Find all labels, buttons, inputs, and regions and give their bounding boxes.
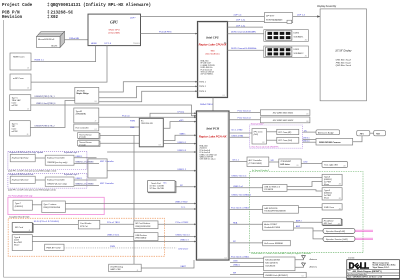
audio codec xyxy=(263,222,294,230)
WLAN module xyxy=(264,257,295,271)
svg-text:USB3.2 Gen1(TBD) 2: USB3.2 Gen1(TBD) 2 xyxy=(232,195,252,197)
svg-text:Type C retimer: Type C retimer xyxy=(43,203,56,206)
wire TypeA to USB redriver xyxy=(32,236,134,238)
svg-text:USB Redriver: USB Redriver xyxy=(135,235,147,237)
svg-text:U8: U8 xyxy=(159,144,161,146)
wire TypeC1 to Maple Ridge xyxy=(31,97,75,99)
svg-text:LED: LED xyxy=(304,162,308,164)
svg-text:Share: Share xyxy=(324,197,329,199)
header project code text xyxy=(2,3,151,20)
svg-text:USB3.2 Gen1: USB3.2 Gen1 xyxy=(107,234,120,236)
svg-text:M.2 2280 SSD SSD1: M.2 2280 SSD SSD1 xyxy=(273,113,294,115)
svg-text:18" Slim : 18x7 MB: 18" Slim : 18x7 MB xyxy=(150,188,165,190)
svg-text:QHD Slim Touch: QHD Slim Touch xyxy=(336,65,352,67)
svg-text:USB3/DP(TBT4) TB_1: USB3/DP(TBT4) TB_1 xyxy=(35,96,56,98)
svg-text:Fan Controller: Fan Controller xyxy=(76,126,89,129)
svg-text:Display Assembly: Display Assembly xyxy=(317,5,337,8)
wire keyboard1 to controller1 xyxy=(35,157,45,159)
svg-text:eDP 1.4: eDP 1.4 xyxy=(234,15,243,17)
wire hub to TypeA2 xyxy=(287,190,322,191)
wire CPU second eDP stub xyxy=(228,26,264,28)
svg-text:UHD Slim Touch: UHD Slim Touch xyxy=(336,60,352,62)
wire CPU eDP1.4a to DP mux xyxy=(228,21,265,23)
wire DDR channel B xyxy=(228,49,264,51)
connector Type C TBT J6 xyxy=(10,121,31,136)
wire PCH to WLAN CNVi xyxy=(230,262,264,264)
svg-text:Share: Share xyxy=(324,184,329,186)
keyboard junction box xyxy=(88,159,107,178)
svg-text:I2C: I2C xyxy=(233,241,237,243)
wire retimer to PCH USB3 xyxy=(65,203,196,205)
SD redriver xyxy=(134,221,158,229)
wire codec to headphone xyxy=(294,221,323,223)
svg-text:TBT4 3: TBT4 3 xyxy=(199,91,206,93)
keyboard controller 2 xyxy=(45,177,74,186)
svg-text:J16: J16 xyxy=(306,121,309,123)
svg-text:Project Code: Project Code xyxy=(2,3,33,8)
svg-text:For Perkey Bright LED3 only: For Perkey Bright LED3 only xyxy=(8,195,32,198)
titleblock company text xyxy=(373,261,396,268)
svg-text:(USB3.2): (USB3.2) xyxy=(15,206,24,208)
svg-text:DMIx8 TBD4: DMIx8 TBD4 xyxy=(200,104,213,106)
svg-text:SPI: SPI xyxy=(233,273,237,275)
connector HDMI Conn J1 xyxy=(10,53,31,70)
svg-text:DP WTT: DP WTT xyxy=(266,15,275,17)
antenna main xyxy=(302,255,306,259)
wire hub to TypeA1 xyxy=(287,182,322,187)
svg-text:w/PD3: w/PD3 xyxy=(12,105,19,107)
svg-text:J3: J3 xyxy=(27,68,29,70)
wire CPU DMI to PCH xyxy=(212,98,214,112)
wire PCH to TypeA2 xyxy=(229,196,322,198)
svg-text:(2 Lead): (2 Lead) xyxy=(79,144,86,146)
svg-text:USB2.0: USB2.0 xyxy=(233,265,241,267)
wire controller1 SMB out xyxy=(74,162,99,164)
thermal sensor 1 xyxy=(78,133,100,139)
svg-text:(PS8733B/3): (PS8733B/3) xyxy=(135,238,146,240)
svg-text:LAN 10/100/1G: LAN 10/100/1G xyxy=(264,207,278,210)
keyboard 4zone module purple region xyxy=(8,173,87,188)
svg-text:I2C 1.1/TBD: I2C 1.1/TBD xyxy=(232,130,244,132)
svg-text:TypeM: TypeM xyxy=(76,111,82,113)
wire SD redriver to PCH xyxy=(158,223,196,225)
svg-text:Touch Pad: Touch Pad xyxy=(151,183,161,185)
svg-text:Alienware Badge: Alienware Badge xyxy=(317,131,335,134)
svg-text:SPI: SPI xyxy=(271,160,275,162)
wire FPC1 to FPC2 xyxy=(267,131,277,133)
wire fan controller to EC xyxy=(99,126,140,128)
svg-text:Audio CODEC: Audio CODEC xyxy=(263,223,277,226)
svg-text:PCIe Gen4 x4: PCIe Gen4 x4 xyxy=(238,118,252,120)
svg-text:4x Sound Combo 2: 4x Sound Combo 2 xyxy=(252,170,270,172)
svg-text:U6: U6 xyxy=(95,101,97,103)
svg-text:Realtek ALC3254: Realtek ALC3254 xyxy=(264,226,280,229)
svg-text:USB3.2 Gen1 4: USB3.2 Gen1 4 xyxy=(176,234,191,236)
svg-text:x18: x18 xyxy=(343,166,346,168)
svg-text:eDP?: eDP? xyxy=(130,18,136,20)
connector Type C USB3.2 xyxy=(13,200,32,210)
titleblock divider 2 xyxy=(347,272,400,274)
svg-text:TBT4 1: TBT4 1 xyxy=(199,81,206,83)
svg-text:eDP 1.4a: eDP 1.4a xyxy=(236,25,246,27)
TypeC retimer xyxy=(42,201,66,213)
wire touchpad to PCH I2C xyxy=(175,186,196,188)
svg-text:2280(M2B): 2280(M2B) xyxy=(75,114,87,116)
svg-text:USB2.1: USB2.1 xyxy=(75,178,83,180)
svg-text:TBD: TBD xyxy=(210,51,215,53)
connector Type C TBT4 LAP J5 xyxy=(10,95,31,111)
orange daughter board region xyxy=(8,218,164,256)
svg-text:LL: LL xyxy=(360,262,369,271)
wire arrowheads at PCH left pins xyxy=(194,33,197,243)
svg-text:J8: J8 xyxy=(29,230,31,232)
hall sensor xyxy=(263,240,291,246)
svg-text:ITE8297 (4 zone only): ITE8297 (4 zone only) xyxy=(47,182,67,185)
svg-text:Keyboard Logic 2: Keyboard Logic 2 xyxy=(64,173,79,176)
FPC Conn 4P xyxy=(277,129,299,134)
svg-text:JHL8540: JHL8540 xyxy=(77,90,86,92)
wire thermal sensors to EC xyxy=(100,134,139,136)
svg-text:RTL8111EPV/8125BGVB: RTL8111EPV/8125BGVB xyxy=(264,211,286,213)
svg-text:Taipei Taiwan, R.O.C.: Taipei Taiwan, R.O.C. xyxy=(373,267,390,269)
wire USB redriver to PCH xyxy=(158,236,196,238)
wire DDR channel A xyxy=(228,33,264,35)
svg-text:ITE5570E-128: ITE5570E-128 xyxy=(141,123,153,125)
svg-text:J21: J21 xyxy=(339,198,342,200)
svg-text:Hall sensor SM363A: Hall sensor SM363A xyxy=(264,242,283,245)
wire EC to PCH USB xyxy=(163,143,196,145)
connector headphone jack xyxy=(322,219,342,226)
svg-text:I2C: I2C xyxy=(164,183,168,185)
wire TypeC2 to Maple Ridge xyxy=(30,101,75,128)
svg-text:Killer(Intel)/DW2: Killer(Intel)/DW2 xyxy=(265,259,280,262)
svg-text:ROW/TB(2A(2B)4X: ROW/TB(2A(2B)4X xyxy=(266,18,283,21)
svg-text:eDP 1.4a: eDP 1.4a xyxy=(236,20,246,22)
svg-text:SMB 1: SMB 1 xyxy=(180,134,187,136)
svg-text:QBQY00014131 (Infinity RPL-HX: QBQY00014131 (Infinity RPL-HX Alienware) xyxy=(51,3,152,8)
LAN controller xyxy=(263,206,299,214)
wire retimer to PCH CC xyxy=(65,208,196,210)
PCH U2 Intel Raptor Lake PCH-HX xyxy=(196,111,229,260)
svg-text:I2C: I2C xyxy=(180,185,184,187)
connector Type A daughter xyxy=(12,235,32,251)
wire to alienware badge xyxy=(303,131,317,133)
connector Type A 1 xyxy=(322,174,342,185)
wire camera to FAN1 xyxy=(353,136,362,142)
svg-text:Maple Ridge: Maple Ridge xyxy=(77,93,90,95)
svg-text:192bit MB: 192bit MB xyxy=(69,37,79,40)
wire HDMI conn to GPU HDMI pin xyxy=(31,46,96,62)
wire PCH to SSD2 xyxy=(229,119,260,121)
svg-text:256MB Flash (BIOS/EC): 256MB Flash (BIOS/EC) xyxy=(264,275,288,277)
wire PCH to LAN xyxy=(229,209,263,211)
svg-text:TB-BG: TB-BG xyxy=(133,43,140,45)
svg-text:RGB IR/USB Camera: RGB IR/USB Camera xyxy=(319,142,341,144)
wire SD card to card reader xyxy=(32,224,78,226)
wire ALC to LED driver xyxy=(269,161,279,163)
svg-text:mDP Conn: mDP Conn xyxy=(13,78,24,80)
svg-text:USB3.2 x4: USB3.2 x4 xyxy=(233,186,243,188)
svg-text:J9: J9 xyxy=(137,270,139,272)
wire TypeM to PCH PCIe x4 xyxy=(99,116,197,118)
svg-text:PCIex8 PEG: PCIex8 PEG xyxy=(159,32,172,34)
svg-text:CNVi: CNVi xyxy=(233,261,238,263)
svg-text:Killer AX1675i: Killer AX1675i xyxy=(265,262,278,265)
svg-text:DP 1.4: DP 1.4 xyxy=(105,43,112,45)
svg-text:GN21 GPU: GN21 GPU xyxy=(108,30,119,32)
wire Maple TBT1 to CPU xyxy=(99,82,198,92)
svg-text:J4: J4 xyxy=(27,88,29,90)
svg-text:HDMI Conn: HDMI Conn xyxy=(13,57,25,59)
wire PCH to TypeA1 xyxy=(229,177,322,179)
keyboard 4zone xyxy=(10,176,35,183)
svg-text:J7: J7 xyxy=(95,120,97,122)
svg-text:PWM: PWM xyxy=(130,120,135,122)
svg-text:LED driver: LED driver xyxy=(178,248,188,251)
svg-text:PCIe Gen4 x4: PCIe Gen4 x4 xyxy=(238,110,252,112)
svg-text:I/O-E/M Debug: I/O-E/M Debug xyxy=(110,266,124,268)
svg-text:(cable:FPC 1.0t 24P 0.5mm pitc: (cable:FPC 1.0t 24P 0.5mm pitch 4-zone R… xyxy=(8,188,56,191)
svg-text:eDP 1.4: eDP 1.4 xyxy=(297,15,306,17)
svg-text:SD 3.0 (PCIe x1 R-TL/UHS-II): SD 3.0 (PCIe x1 R-TL/UHS-II) xyxy=(34,221,60,223)
magenta speaker wires 2 xyxy=(355,237,373,239)
svg-text:TPS/WS/MP: TPS/WS/MP xyxy=(280,161,291,163)
svg-text:I2C: I2C xyxy=(304,130,308,132)
svg-text:J6: J6 xyxy=(27,134,29,136)
svg-text:J22: J22 xyxy=(339,208,342,210)
svg-text:16"/18" Display: 16"/18" Display xyxy=(335,49,352,52)
wire GPU PEG to CPU xyxy=(141,33,198,35)
svg-text:GPU: GPU xyxy=(110,21,118,25)
wire LAN to RJ45 xyxy=(298,207,322,209)
wire thermal sensor2 to EC xyxy=(100,142,139,144)
wire FPC1 to FPC3 xyxy=(267,139,277,141)
svg-text:USB2.1 2: USB2.1 2 xyxy=(178,169,187,171)
Fan Controller U7 xyxy=(74,124,99,131)
FPC Conn 2x8 b xyxy=(277,137,299,143)
connector RJ45 xyxy=(322,204,342,210)
svg-text:LED driver: LED driver xyxy=(280,164,290,166)
svg-text:UART: UART xyxy=(181,265,187,268)
FAN 1 xyxy=(357,131,370,136)
wire PCH to WLAN USB xyxy=(230,266,264,268)
svg-text:×: × xyxy=(224,41,226,45)
svg-text:eDP1.4 HDMI2.1: eDP1.4 HDMI2.1 xyxy=(201,74,214,76)
svg-text:Keyboard Logic 1: Keyboard Logic 1 xyxy=(64,151,79,154)
svg-text:ALC Controller: ALC Controller xyxy=(248,159,262,162)
SSD Type M 2280 J7 xyxy=(74,108,99,123)
svg-text:Antenna: Antenna xyxy=(309,258,318,261)
keyboard perkey xyxy=(10,154,35,162)
svg-text:PWM: PWM xyxy=(110,246,115,248)
svg-text:Speaker Boost(L&R): Speaker Boost(L&R) xyxy=(326,230,345,233)
svg-text:Date: SATURDAY, APR 01, 23: Date: SATURDAY, APR 01, 23 Sheet 1 of 38 xyxy=(348,276,382,279)
wire PCH USB3 TB4 stub xyxy=(229,136,250,138)
svg-text:Daughter Board IO(2): Daughter Board IO(2) xyxy=(9,216,29,219)
svg-text:SODIMM 2: SODIMM 2 xyxy=(294,53,305,55)
card reader xyxy=(78,220,100,229)
USB hub RTL xyxy=(263,185,287,192)
magenta speaker wires 1 xyxy=(355,229,373,231)
svg-text:USB2.0 1: USB2.0 1 xyxy=(178,142,187,144)
SSD M.2 2280 SSD2 xyxy=(260,117,310,123)
svg-text:HDMI 2.1: HDMI 2.1 xyxy=(35,60,45,62)
titleblock box xyxy=(347,260,400,280)
svg-text:Raptor Lake PCH-HX: Raptor Lake PCH-HX xyxy=(199,135,227,139)
svg-text:Speaker Tweeter (L&R): Speaker Tweeter (L&R) xyxy=(326,238,348,241)
wires to camera xyxy=(303,139,317,141)
svg-text:MIC Jack: MIC Jack xyxy=(324,223,333,225)
svg-text:USB 2.0: USB 2.0 xyxy=(303,141,310,143)
antenna aux xyxy=(302,263,306,267)
svg-text:(2 Lead): (2 Lead) xyxy=(79,137,86,139)
keyboard controller 1 ITE8298 xyxy=(45,155,74,165)
svg-text:USB2.0 Gen2(TBD) 6: USB2.0 Gen2(TBD) 6 xyxy=(36,103,56,105)
svg-text:Intel PCH: Intel PCH xyxy=(205,127,219,131)
svg-text:USB2.1: USB2.1 xyxy=(75,156,83,158)
svg-text:w/PD3: w/PD3 xyxy=(12,131,19,133)
connector mDP Conn J4 xyxy=(10,74,31,90)
DP mux U5 xyxy=(264,13,292,23)
svg-text:CNVi GbE I2C x4(-/-): CNVi GbE I2C x4(-/-) xyxy=(200,159,216,161)
wire debug conn to PCH xyxy=(141,260,194,268)
debug connector M.2 xyxy=(109,264,142,272)
thermal sensor 2 xyxy=(78,140,100,146)
dashed wire PWM to LED driver ref xyxy=(64,247,176,249)
svg-text:SMB: SMB xyxy=(130,127,135,129)
wire Maple TBT3 to CPU xyxy=(99,91,198,102)
svg-text:PCIe x1 TBD1: PCIe x1 TBD1 xyxy=(107,222,121,224)
USB redriver xyxy=(134,233,158,241)
svg-text:DDR5 Channel B 4800MHz: DDR5 Channel B 4800MHz xyxy=(231,48,256,50)
svg-text:Keyboard RGB Board 4Zone: Keyboard RGB Board 4Zone xyxy=(9,173,33,176)
svg-text:PCIe x4: PCIe x4 xyxy=(122,115,130,117)
svg-text:J11: J11 xyxy=(305,56,308,58)
wire upper USB2 to PCH xyxy=(107,151,196,153)
svg-text:U4: U4 xyxy=(302,276,304,278)
thermal solution purple region xyxy=(250,125,303,148)
svg-text:HDMI: HDMI xyxy=(91,43,97,45)
svg-text:(DG2-X6M): (DG2-X6M) xyxy=(108,33,119,35)
svg-text:FAN: FAN xyxy=(376,132,381,135)
svg-text:USB2.0 3: USB2.0 3 xyxy=(180,240,189,242)
svg-text:ITE8296 (per key only): ITE8296 (per key only) xyxy=(47,162,68,164)
wire PCH to audio codec HDA xyxy=(229,223,263,225)
wire controller1 USB out xyxy=(74,157,97,159)
svg-text:PI3EQX1291GXZHE: PI3EQX1291GXZHE xyxy=(43,207,60,209)
svg-text:USB3.2 TBD2: USB3.2 TBD2 xyxy=(175,202,188,204)
wire PCH to SSD1 xyxy=(229,112,260,114)
svg-text:USB2.0 9: USB2.0 9 xyxy=(178,150,187,152)
Tron Light LED xyxy=(322,162,348,168)
wire PCH to FPC conn1 xyxy=(229,132,252,134)
svg-text:Keyboard Controller: Keyboard Controller xyxy=(47,157,65,160)
svg-text:U1: U1 xyxy=(223,95,225,97)
wire controller2 USB out xyxy=(74,179,97,181)
svg-text:FPC Conn (2x8): FPC Conn (2x8) xyxy=(278,140,292,142)
svg-text:J23: J23 xyxy=(338,223,341,225)
touchpad 3D box xyxy=(148,181,177,193)
svg-text:USB3.2 Gen1 x1: USB3.2 Gen1 x1 xyxy=(232,176,248,178)
svg-text:Keyboard (4 zone): Keyboard (4 zone) xyxy=(12,178,29,181)
wire keyboard2 to controller2 xyxy=(35,179,45,181)
svg-text:SODIMM 1: SODIMM 1 xyxy=(294,37,305,39)
wire GDDR6 to GPU 192bit xyxy=(65,39,89,41)
svg-text:Keyboard RGB Board (Per Key) T: Keyboard RGB Board (Per Key) Topside xyxy=(9,151,43,154)
svg-text:213268-SC: 213268-SC xyxy=(51,12,74,16)
svg-text:Thermal Solu?: Thermal Solu? xyxy=(251,123,265,125)
speaker tweeter xyxy=(323,236,355,241)
svg-text:J5: J5 xyxy=(27,109,29,111)
pink retimer region xyxy=(8,197,104,214)
svg-text:J10: J10 xyxy=(305,39,308,41)
SSD M.2 2280 SSD1 xyxy=(260,110,310,116)
svg-text:USB 3.2/TB4: USB 3.2/TB4 xyxy=(232,135,245,137)
svg-text:PCIe x1 TBD2: PCIe x1 TBD2 xyxy=(176,222,190,224)
ALC controller xyxy=(247,157,269,167)
wire TypeA USB2 direct to PCH xyxy=(32,241,196,243)
svg-text:DDR5: DDR5 xyxy=(294,33,300,35)
svg-text:Antenna: Antenna xyxy=(309,266,318,269)
svg-text:SMB/I2C_Ext SMB3: SMB/I2C_Ext SMB3 xyxy=(75,161,94,164)
svg-text:eSPI: eSPI xyxy=(179,120,184,122)
wire PCH to hall sensor xyxy=(229,242,263,244)
svg-text:USB 3.0 HUB x1.5: USB 3.0 HUB x1.5 xyxy=(264,187,281,189)
svg-text:J20: J20 xyxy=(339,184,342,186)
wire PCH to BIOS flash xyxy=(230,274,264,276)
Alienware Badge xyxy=(316,130,340,135)
FAN 2 xyxy=(374,131,386,136)
wire EC to PCH SMB xyxy=(163,135,196,140)
svg-text:HDA: HDA xyxy=(233,221,238,224)
svg-text:Card Reader: Card Reader xyxy=(80,223,92,225)
display panel box xyxy=(320,9,366,101)
TBT controller Maple Ridge U6 xyxy=(75,87,99,103)
LED driver box xyxy=(279,159,301,167)
svg-text:GD-R6: GD-R6 xyxy=(51,45,58,47)
svg-text:X02: X02 xyxy=(51,16,59,20)
wire WLAN to antenna2 xyxy=(295,266,304,267)
sheet frame bottom border xyxy=(4,276,400,278)
svg-text:M.2 2280 SSD SSD2: M.2 2280 SSD SSD2 xyxy=(273,120,294,122)
camera RGB IR/USB xyxy=(316,138,353,145)
svg-text:(cable:FPC 1.0t 32P 0.5mm pitc: (cable:FPC 1.0t 32P 0.5mm pitch per-key … xyxy=(8,170,57,173)
wire TypeC1 USB2 to PCH xyxy=(31,105,197,116)
svg-text:FAN: FAN xyxy=(360,132,365,135)
wire mDP conn to GPU DP pin xyxy=(31,46,107,83)
wire PCH to ALC controller xyxy=(229,161,247,163)
titleblock bottom bar xyxy=(347,278,400,279)
svg-text:RJ45 Conn: RJ45 Conn xyxy=(324,206,335,209)
svg-text:Intel AX211: Intel AX211 xyxy=(265,265,275,268)
svg-text:I2S 1.1: I2S 1.1 xyxy=(233,160,240,162)
svg-text:Tron Light LED: Tron Light LED xyxy=(324,164,338,167)
connector DDR5 SODIMM1 J10 xyxy=(264,30,309,42)
titleblock divider 3 xyxy=(347,274,400,276)
wire EC top to PCH LPC xyxy=(150,113,196,118)
svg-text:Intel CPU: Intel CPU xyxy=(205,36,219,40)
connector DDR5 SODIMM2 J11 xyxy=(264,46,309,58)
wire branch to tweeter xyxy=(313,231,323,239)
svg-text:PCIe Gen3 x1 TBD1: PCIe Gen3 x1 TBD1 xyxy=(231,256,250,258)
wire DP mux to display xyxy=(293,16,320,18)
wire LED driver to tron light xyxy=(301,163,322,165)
svg-text:Type C: Type C xyxy=(15,203,22,205)
svg-text:J15: J15 xyxy=(306,114,309,116)
BIOS flash xyxy=(264,272,307,277)
memory GDDR6 3D box xyxy=(37,32,65,48)
svg-text:FPC Conn (4P): FPC Conn (4P) xyxy=(278,131,291,134)
